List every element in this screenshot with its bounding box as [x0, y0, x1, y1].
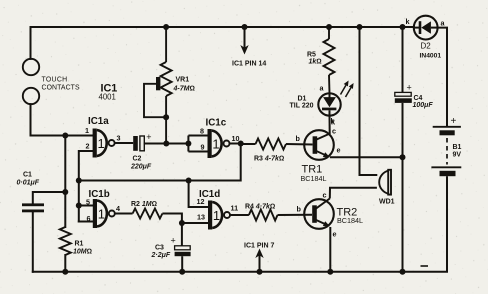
junction dot C4 top on rail [400, 24, 406, 30]
svg-text:BC184L: BC184L [337, 216, 363, 225]
wire IC1b out to R2 [115, 213, 133, 215]
svg-text:1: 1 [212, 137, 219, 152]
wire C1 top branch [33, 192, 66, 203]
resistor R4 4-7k [249, 210, 278, 221]
junction dot C4 bottom on rail [400, 269, 406, 275]
wire TR1 emitter to 0V vertical [330, 156, 403, 158]
svg-text:D2: D2 [421, 42, 432, 51]
wire feedback bus node10 to IC1b/IC1a inputs [79, 144, 241, 181]
svg-text:+: + [451, 116, 457, 127]
svg-text:4001: 4001 [99, 93, 116, 102]
svg-text:R1: R1 [75, 241, 84, 248]
wire IC1a pin2 loop down [79, 151, 93, 222]
svg-text:IC1d: IC1d [199, 189, 220, 200]
LED D1 TIL220 [318, 93, 340, 115]
svg-text:D1: D1 [298, 96, 307, 103]
wire R1 bottom to rail [64, 255, 66, 272]
capacitor C1 [22, 203, 44, 212]
svg-text:1: 1 [85, 126, 89, 135]
svg-text:WD1: WD1 [379, 199, 395, 206]
junction dot VR1 wiper bottom [163, 114, 169, 120]
capacitor C4 100uF [395, 27, 434, 272]
capacitor C3 2.2uF [181, 223, 183, 246]
junction dot emitter/C4 line [400, 154, 406, 160]
svg-text:CONTACTS: CONTACTS [42, 85, 80, 92]
wire R3 to TR1 base [286, 143, 313, 146]
svg-text:c: c [332, 127, 336, 136]
touch contact lower [23, 88, 39, 104]
IC1 PIN 14 arrow [232, 24, 266, 68]
wire node10 to R3 [241, 143, 256, 145]
junction dot VR1 top on rail [163, 24, 169, 30]
bottom 0V rail [33, 271, 447, 273]
wire D2 anode to battery + [438, 28, 447, 126]
svg-text:IC1b: IC1b [89, 189, 110, 200]
resistor R2 1M [133, 209, 163, 219]
svg-text:TIL 220: TIL 220 [290, 103, 314, 110]
svg-text:B1: B1 [453, 144, 462, 151]
junction dot IC1b pin5 tie [76, 203, 82, 209]
gate IC1b (NOR 2/4 of 4001) [86, 189, 120, 228]
wire R2 to IC1d pin13 [162, 214, 208, 224]
svg-text:VR1: VR1 [176, 77, 190, 84]
wire lower touch contact to IC1a pin1 [31, 104, 93, 135]
svg-text:8: 8 [200, 127, 204, 136]
svg-text:2: 2 [86, 142, 90, 151]
svg-text:k: k [331, 118, 335, 127]
VR1 wiper bar [156, 77, 160, 90]
svg-text:10MΩ: 10MΩ [73, 249, 92, 256]
junction dot bus/pin12 [186, 178, 192, 184]
svg-text:0·01μF: 0·01μF [17, 180, 40, 187]
svg-text:IC1c: IC1c [206, 118, 227, 129]
svg-text:10: 10 [232, 134, 240, 143]
gate IC1a (NOR 1/4 of 4001) [85, 116, 121, 158]
junction dot R2/C3 node [179, 220, 185, 226]
wire C2 to IC1c inputs [144, 143, 189, 145]
junction dot C2/IC1c tie node [185, 141, 191, 147]
junction dot pin1 node [62, 133, 68, 139]
resistor R1 10M [60, 227, 71, 255]
wire +V rail to WD1 top [360, 27, 378, 175]
wire TR2 collector up to WD1 [330, 188, 377, 199]
svg-text:IC1 PIN 14: IC1 PIN 14 [232, 61, 266, 68]
gate IC1c (NOR 3/4 of 4001) [200, 118, 240, 159]
svg-text:1kΩ: 1kΩ [309, 59, 322, 66]
junction dot feedback bus left end [76, 178, 82, 184]
svg-text:+: + [407, 83, 412, 93]
junction dot WD1 branch on rail [357, 24, 363, 30]
svg-text:R5: R5 [307, 52, 316, 59]
diode D2 IN4001 [414, 16, 438, 40]
junction dot R5 top on rail [326, 24, 332, 30]
svg-text:IN4001: IN4001 [420, 53, 442, 60]
svg-text:TOUCH: TOUCH [42, 77, 68, 84]
svg-text:2·2μF: 2·2μF [151, 252, 171, 259]
wire left vertical from pin1 node down to 0V rail [64, 136, 66, 228]
transistor TR1 BC184L [304, 130, 334, 160]
svg-text:k: k [406, 17, 410, 26]
junction dot VR1/C2 node [163, 141, 169, 147]
svg-text:R3 4-7kΩ: R3 4-7kΩ [254, 156, 284, 163]
wire C1 bottom to rail [32, 212, 34, 272]
svg-text:R2 1MΩ: R2 1MΩ [131, 201, 157, 208]
touch contact upper [23, 59, 39, 75]
junction dot C1 node [62, 189, 68, 195]
svg-text:b: b [296, 134, 301, 143]
svg-text:4-7MΩ: 4-7MΩ [173, 86, 195, 93]
wire IC1a output to C2 [115, 142, 134, 144]
transistor TR2 BC184L [304, 199, 334, 229]
wire IC1c out to node10 [230, 143, 241, 145]
junction dot TR2 emitter on rail [327, 269, 333, 275]
svg-text:e: e [337, 146, 341, 155]
resistor R3 4-7k [256, 139, 286, 150]
svg-text:b: b [297, 205, 302, 214]
svg-text:9: 9 [201, 143, 205, 152]
wire IC1b pin5 stub [79, 205, 93, 207]
junction dot node 10 [238, 141, 244, 147]
svg-text:IC1a: IC1a [88, 116, 109, 127]
svg-text:C4: C4 [414, 95, 423, 102]
top +V rail [31, 26, 414, 28]
wire R4 to TR2 base [278, 214, 313, 216]
junction dot R1 bottom [62, 269, 68, 275]
svg-text:IC1 PIN 7: IC1 PIN 7 [244, 243, 274, 250]
svg-text:C1: C1 [23, 172, 32, 179]
svg-text:9V: 9V [453, 152, 462, 159]
LED light arrows [341, 81, 354, 98]
svg-text:C3: C3 [155, 245, 164, 252]
wire IC1d out to R4 [230, 214, 249, 216]
svg-text:1: 1 [98, 207, 105, 222]
svg-text:1: 1 [213, 208, 220, 223]
svg-text:3: 3 [117, 134, 121, 143]
svg-text:4: 4 [116, 204, 120, 213]
battery B1 9V [421, 116, 462, 272]
resistor R5 1k [324, 27, 335, 93]
wire top-left corner down to upper touch contact [30, 27, 32, 59]
svg-text:220μF: 220μF [130, 164, 152, 171]
gate IC1d (NOR 4/4 of 4001) [197, 189, 239, 230]
svg-text:+: + [171, 236, 176, 246]
wire IC1c input tie bar pins 8+9 [188, 136, 207, 152]
sounder WD1 [379, 170, 391, 195]
variable resistor VR1 4-7M [144, 27, 172, 144]
wire IC1b pin6 stub [79, 221, 93, 223]
wire TR2 emitter to 0V rail [329, 227, 331, 272]
IC1 PIN 7 arrow [244, 243, 274, 275]
svg-text:11: 11 [231, 204, 239, 213]
svg-text:BC184L: BC184L [301, 174, 327, 183]
wire LED cathode to TR1 collector [329, 116, 331, 134]
svg-text:+: + [146, 132, 151, 142]
junction dot C3 bottom [179, 269, 185, 275]
svg-text:e: e [333, 230, 337, 239]
capacitor C2 220uF [130, 132, 152, 171]
svg-text:100μF: 100μF [413, 102, 434, 109]
svg-text:1: 1 [98, 136, 105, 151]
svg-text:6: 6 [87, 214, 91, 223]
svg-text:c: c [323, 191, 327, 200]
svg-text:R4 4·7kΩ: R4 4·7kΩ [245, 204, 275, 211]
svg-text:C2: C2 [133, 156, 142, 163]
svg-text:13: 13 [197, 213, 205, 222]
wire bus drop to IC1d pin12 [189, 181, 208, 208]
